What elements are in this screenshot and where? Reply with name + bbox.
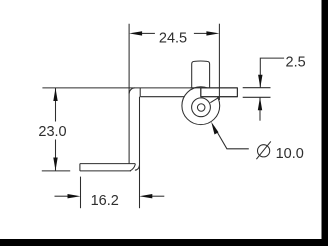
16.2 left extension line — [80, 177, 82, 209]
2.5 bottom extension line — [243, 96, 271, 98]
roller hub middle circle — [192, 98, 211, 117]
arrowhead 16.2 left (points right) — [68, 194, 81, 198]
diameter symbol — [256, 141, 270, 159]
bottom bend outer arc — [135, 166, 139, 171]
roller outer circle — [182, 87, 220, 125]
axle small circle — [197, 104, 205, 112]
top bend tangent line — [139, 88, 141, 97]
top bend outer arc — [129, 88, 135, 94]
arrowhead 2.5 up — [258, 97, 262, 110]
top flange top edge over roller — [190, 87, 237, 89]
arrowhead 23.0 down — [53, 158, 57, 171]
24.5 dimension line left segment — [142, 32, 155, 34]
bottom black band — [0, 239, 328, 246]
arrowhead 16.2 right (points left) — [139, 194, 152, 198]
arrowhead diameter leader — [211, 122, 218, 135]
arrowhead 24.5 right — [206, 31, 219, 35]
svg-text:24.5: 24.5 — [159, 31, 187, 47]
svg-text:16.2: 16.2 — [91, 193, 119, 209]
arrowhead 23.0 up — [53, 88, 57, 101]
23.0 bottom extension line — [42, 170, 70, 172]
2.5 top extension line — [243, 87, 271, 89]
diagonal detail line from hub to plate corner — [210, 97, 219, 103]
bracket web left edge (with 24.5 left extension line, x=129.1) — [128, 24, 130, 164]
16.2 dimension tail left — [55, 195, 69, 197]
svg-text:23.0: 23.0 — [38, 124, 66, 140]
24.5 right extension line — [218, 24, 220, 100]
arrowhead 24.5 left — [129, 31, 142, 35]
23.0 dimension line upper segment — [55, 88, 57, 122]
top flange bottom edge left segment — [140, 96, 185, 98]
bracket top flange top edge (with 23.0 extension line, y=87.9) — [42, 87, 237, 89]
top flange bottom edge right segment — [201, 96, 238, 98]
bottom flange bottom edge — [80, 170, 131, 172]
16.2 dimension tail right — [151, 195, 164, 197]
23.0 dimension line lower segment — [55, 140, 57, 171]
pin stub on top of flange — [192, 61, 210, 88]
top flange right end — [236, 88, 238, 97]
right black band — [322, 0, 328, 246]
svg-text:2.5: 2.5 — [286, 55, 306, 71]
diameter leader line — [214, 127, 249, 149]
plate left edge — [200, 88, 202, 97]
24.5 dimension line right segment — [194, 32, 207, 34]
bottom flange left end — [79, 164, 81, 171]
2.5 upper dimension line with jog — [260, 58, 284, 88]
web right edge (continues as 16.2 right extension line) — [139, 97, 141, 209]
bottom flange top edge — [80, 163, 135, 165]
flange right plate over roller — [201, 88, 238, 97]
svg-text:10.0: 10.0 — [276, 146, 304, 162]
bottom bend inner detail arc — [130, 164, 135, 171]
2.5 lower dimension tail — [259, 97, 261, 120]
arrowhead 2.5 down — [258, 75, 262, 88]
